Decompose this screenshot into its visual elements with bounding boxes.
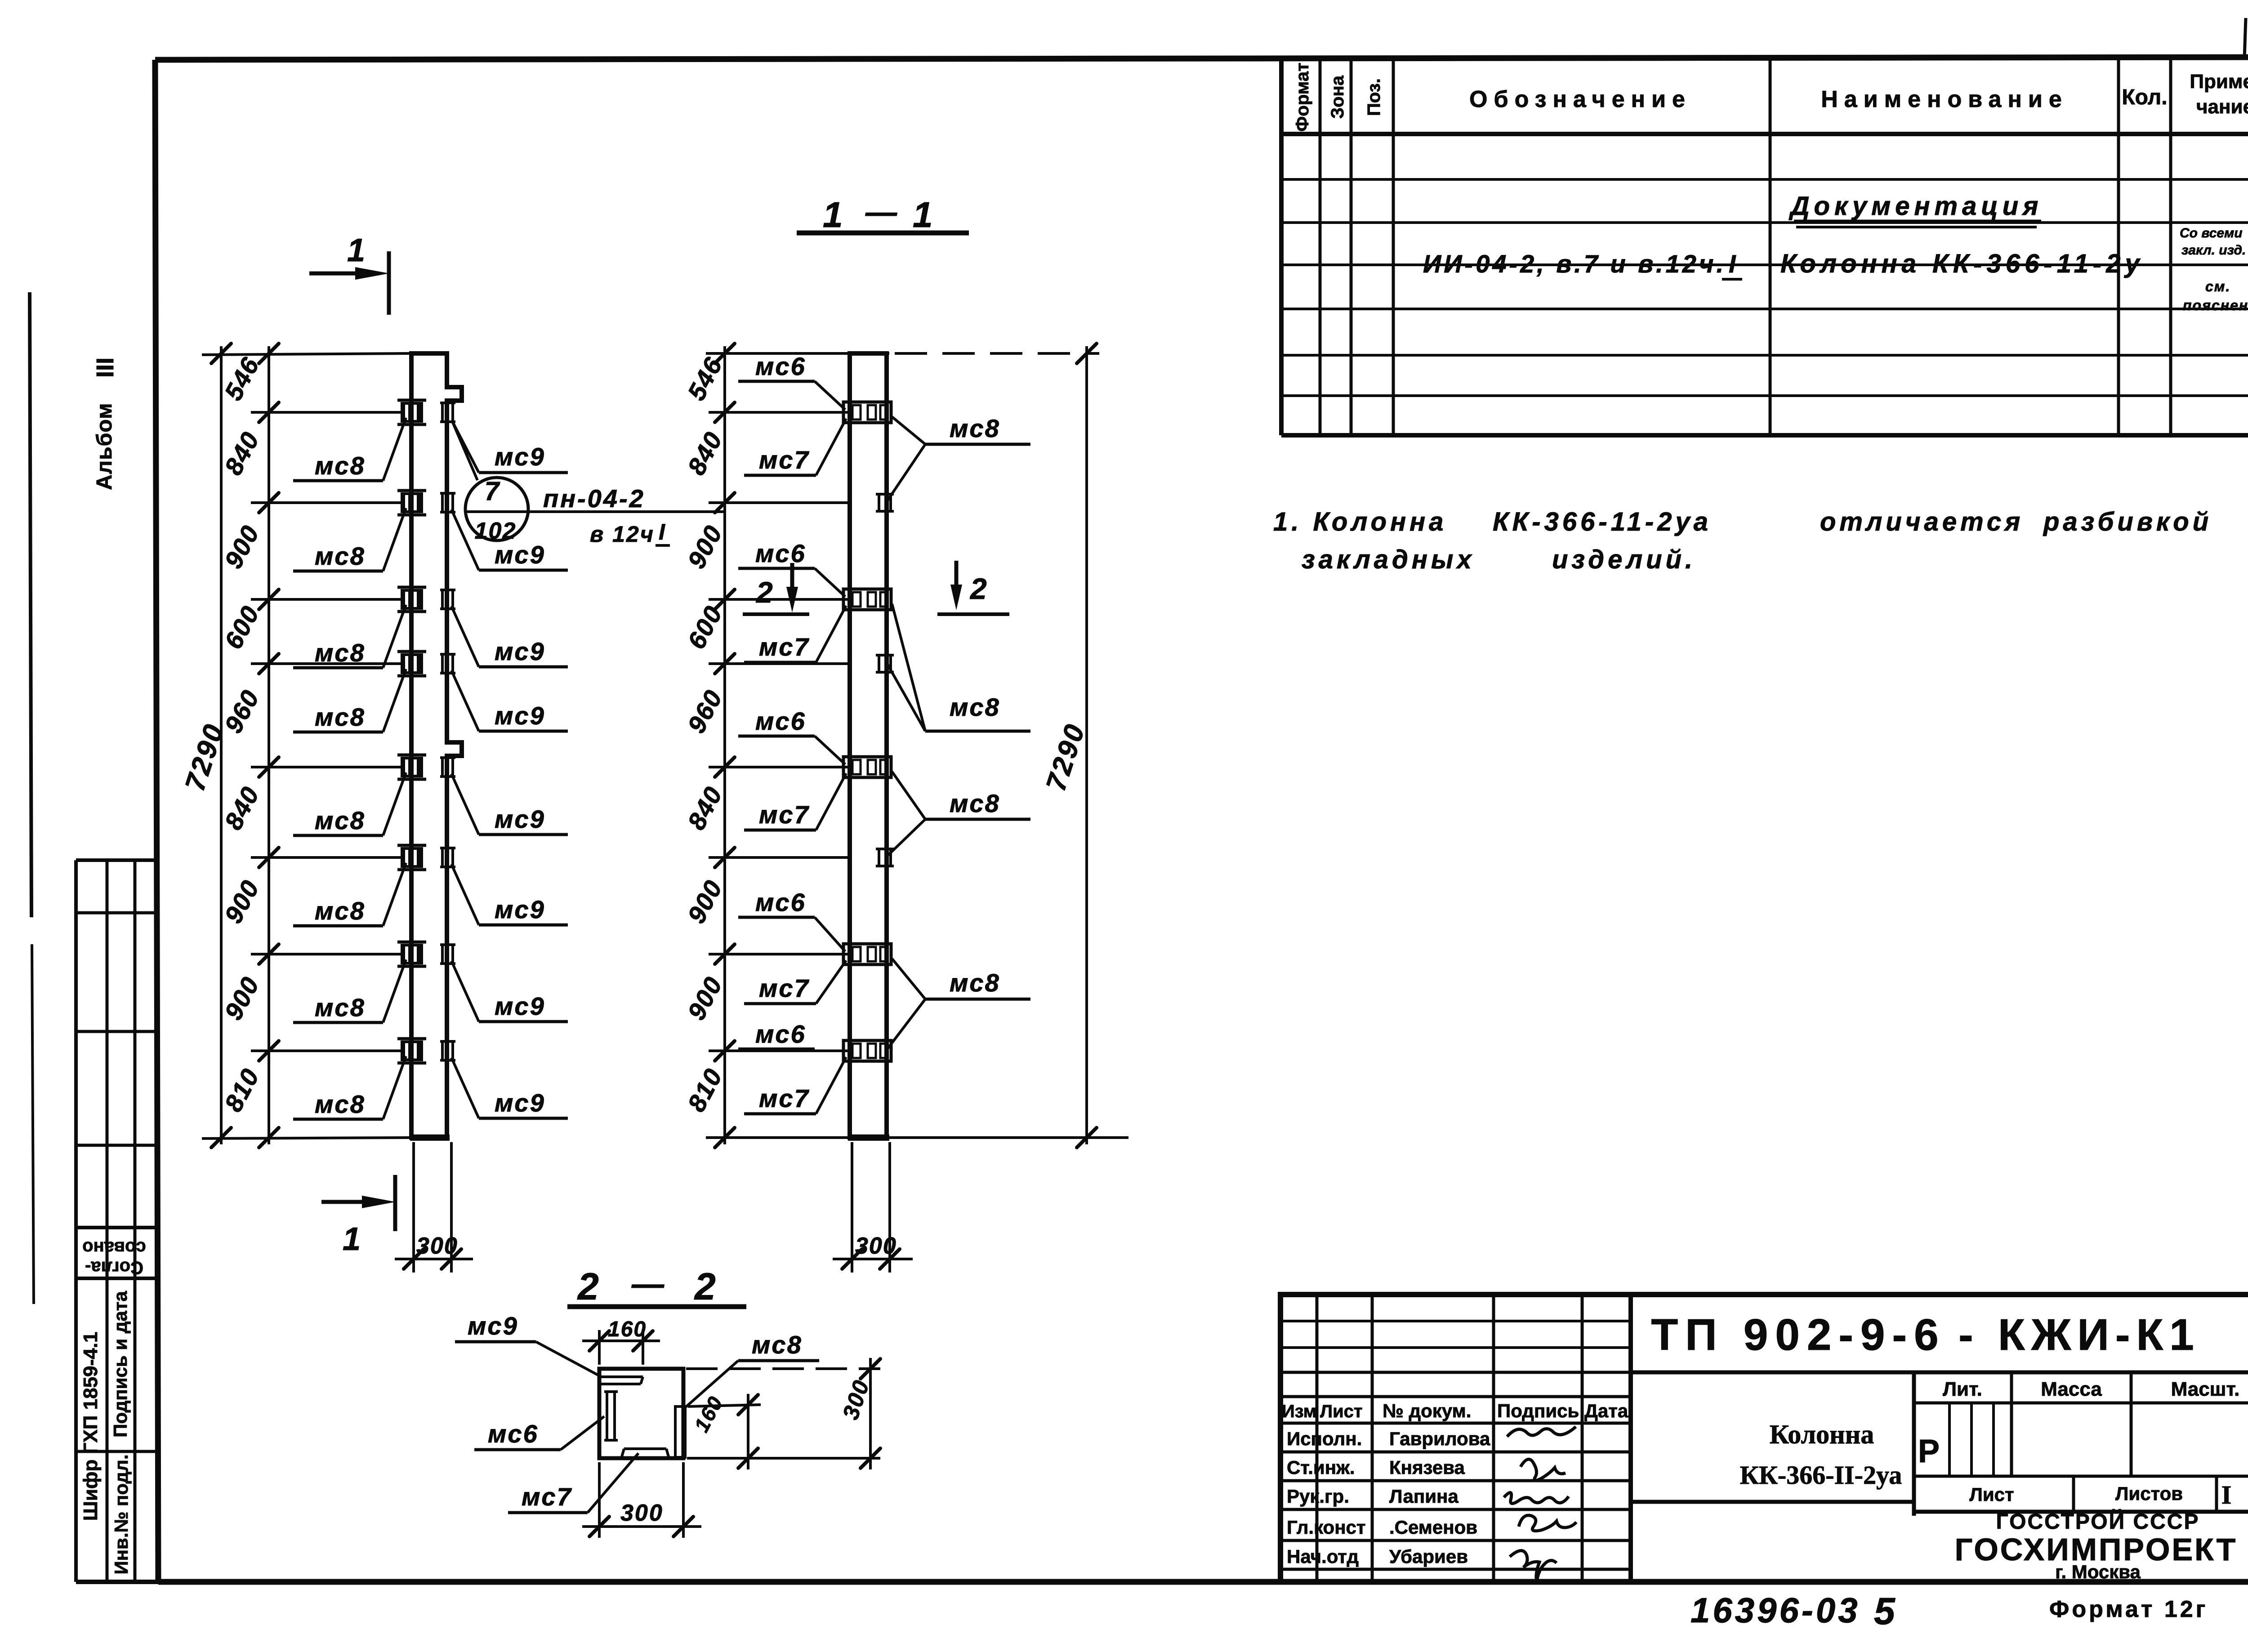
svg-text:Рук.гр.: Рук.гр. xyxy=(1287,1486,1349,1507)
section 2-2: bottom 300 dim xyxy=(598,1462,601,1538)
svg-text:мс6: мс6 xyxy=(755,888,806,916)
svg-text:мс8: мс8 xyxy=(950,414,1000,442)
svg-text:закл. изд.: закл. изд. xyxy=(2181,243,2246,258)
svg-text:—: — xyxy=(631,1266,665,1302)
svg-text:Поз.: Поз. xyxy=(1364,78,1384,116)
svg-text:мс6: мс6 xyxy=(755,1020,806,1048)
svg-text:мс9: мс9 xyxy=(495,540,545,569)
svg-text:пн-04-2: пн-04-2 xyxy=(543,484,645,513)
svg-text:см.: см. xyxy=(2205,278,2230,295)
svg-text:102: 102 xyxy=(475,518,517,544)
section 2-2: plate MC6 (left) xyxy=(607,1392,615,1440)
svg-text:Изм: Изм xyxy=(1282,1402,1316,1421)
svg-text:1: 1 xyxy=(347,232,366,268)
svg-text:160: 160 xyxy=(608,1317,647,1341)
svg-text:Подпись: Подпись xyxy=(1497,1400,1579,1421)
svg-text:чание: чание xyxy=(2196,96,2248,118)
svg-text:ГОССТРОЙ СССР: ГОССТРОЙ СССР xyxy=(1996,1509,2200,1534)
section 2-2: plate MC9 (top slot) xyxy=(599,1375,643,1378)
svg-text:отличается: отличается xyxy=(1820,507,2024,536)
svg-text:I: I xyxy=(2221,1480,2232,1509)
svg-text:Согла-: Согла- xyxy=(85,1258,143,1277)
svg-text:III: III xyxy=(92,357,119,378)
svg-text:Документация: Документация xyxy=(1789,192,2043,221)
section 2-2: top 160 dim xyxy=(598,1330,601,1365)
svg-text:закладных: закладных xyxy=(1302,545,1475,574)
svg-text:КК-366-11-2уа: КК-366-11-2уа xyxy=(1493,507,1712,536)
right view: column outline xyxy=(850,353,887,1138)
svg-text:7: 7 xyxy=(485,477,500,506)
svg-text:Приме-: Приме- xyxy=(2190,71,2248,93)
svg-text:разбивкой: разбивкой xyxy=(2043,507,2212,536)
svg-text:I: I xyxy=(659,519,666,545)
svg-text:Р: Р xyxy=(1918,1433,1940,1469)
svg-text:Гл.конст: Гл.конст xyxy=(1287,1517,1366,1538)
svg-text:1: 1 xyxy=(823,195,844,235)
svg-text:Формат: Формат xyxy=(1293,63,1312,131)
svg-text:I: I xyxy=(1729,250,1737,278)
svg-text:изделий.: изделий. xyxy=(1552,545,1696,574)
svg-text:мс9: мс9 xyxy=(495,701,545,730)
svg-text:Листов: Листов xyxy=(2115,1483,2183,1504)
svg-text:мс8: мс8 xyxy=(315,993,366,1022)
svg-text:мс8: мс8 xyxy=(315,638,366,667)
svg-text:мс7: мс7 xyxy=(759,800,810,829)
svg-text:1. Колонна: 1. Колонна xyxy=(1273,507,1447,536)
svg-text:мс8: мс8 xyxy=(315,806,366,835)
svg-text:мс6: мс6 xyxy=(755,707,806,735)
svg-text:мс6: мс6 xyxy=(488,1420,539,1448)
svg-text:мс7: мс7 xyxy=(759,633,810,661)
svg-text:—: — xyxy=(865,194,898,229)
svg-text:Масса: Масса xyxy=(2041,1378,2102,1400)
svg-text:Лит.: Лит. xyxy=(1943,1378,1982,1400)
svg-text:КК-366-II-2уа: КК-366-II-2уа xyxy=(1740,1460,1902,1490)
svg-text:мс9: мс9 xyxy=(495,637,545,665)
svg-text:Со всеми: Со всеми xyxy=(2180,226,2243,241)
svg-text:в 12ч: в 12ч xyxy=(590,522,655,547)
svg-text:совано: совано xyxy=(82,1238,146,1258)
svg-text:мс9: мс9 xyxy=(495,1089,545,1117)
svg-text:Исполн.: Исполн. xyxy=(1287,1428,1362,1449)
svg-text:мс9: мс9 xyxy=(495,895,545,924)
right view: dimension lines xyxy=(723,346,726,1144)
left view: detail circle 7/102 xyxy=(465,478,528,540)
svg-text:№ докум.: № докум. xyxy=(1383,1400,1471,1421)
svg-text:ИИ-04-2, в.7 и в.12ч.: ИИ-04-2, в.7 и в.12ч. xyxy=(1423,250,1726,278)
svg-text:мс9: мс9 xyxy=(468,1312,518,1340)
svg-text:.Семенов: .Семенов xyxy=(1389,1517,1477,1538)
svg-text:мс8: мс8 xyxy=(950,693,1000,721)
svg-text:5: 5 xyxy=(1874,1590,1896,1632)
svg-text:Кол.: Кол. xyxy=(2122,85,2167,109)
svg-text:Колонна: Колонна xyxy=(1770,1420,1874,1449)
svg-text:мс6: мс6 xyxy=(755,539,806,567)
svg-text:г. Москва: г. Москва xyxy=(2055,1561,2141,1582)
svg-text:Гаврилова: Гаврилова xyxy=(1389,1428,1490,1449)
svg-text:Лапина: Лапина xyxy=(1389,1486,1459,1507)
svg-text:ТП 902-9-6: ТП 902-9-6 xyxy=(1651,1310,1945,1359)
svg-text:мс9: мс9 xyxy=(495,805,545,833)
svg-text:пояснение: пояснение xyxy=(2183,297,2248,313)
svg-text:Шифр ГХП 1859-4.1: Шифр ГХП 1859-4.1 xyxy=(80,1332,102,1521)
left view: embedded plates MC9 (right edge) xyxy=(442,403,453,422)
svg-text:300: 300 xyxy=(620,1500,664,1526)
svg-text:мс9: мс9 xyxy=(495,442,545,471)
svg-text:16396-03: 16396-03 xyxy=(1690,1590,1860,1630)
svg-text:Лист: Лист xyxy=(1320,1402,1363,1421)
section 2-2: square outline xyxy=(599,1369,683,1458)
svg-text:Колонна КК-366-11-2у: Колонна КК-366-11-2у xyxy=(1780,249,2144,278)
svg-text:Обозначение: Обозначение xyxy=(1469,86,1691,112)
svg-text:2: 2 xyxy=(577,1265,600,1308)
svg-text:мс8: мс8 xyxy=(950,789,1000,817)
svg-text:мс6: мс6 xyxy=(755,352,806,380)
left view: column outline xyxy=(411,353,462,1138)
svg-text:мс8: мс8 xyxy=(315,897,366,925)
svg-text:- КЖИ-К1: - КЖИ-К1 xyxy=(1958,1310,2200,1359)
svg-text:1: 1 xyxy=(913,195,934,235)
section 2-2: right 160 dim xyxy=(688,1405,761,1406)
svg-text:мс7: мс7 xyxy=(759,1084,810,1112)
svg-text:Альбом: Альбом xyxy=(93,402,116,490)
left view: embedded plates MC8 (left edge) xyxy=(401,402,423,423)
svg-text:мс7: мс7 xyxy=(522,1482,572,1511)
svg-text:мс8: мс8 xyxy=(315,542,366,570)
svg-text:Инв.№ подл.: Инв.№ подл. xyxy=(111,1454,132,1574)
section 2-2: plate MC8 (right) xyxy=(675,1406,685,1457)
title block xyxy=(1280,1295,2248,1582)
svg-text:Лист: Лист xyxy=(1969,1484,2014,1505)
svg-text:Зона: Зона xyxy=(1328,75,1347,119)
svg-text:мс7: мс7 xyxy=(759,974,810,1002)
svg-text:мс8: мс8 xyxy=(950,969,1000,997)
svg-text:Дата: Дата xyxy=(1584,1400,1628,1421)
parts list table xyxy=(1279,60,1284,435)
svg-text:300: 300 xyxy=(416,1233,458,1259)
svg-text:Убариев: Убариев xyxy=(1389,1546,1468,1567)
svg-text:1: 1 xyxy=(343,1221,361,1257)
svg-text:мс8: мс8 xyxy=(315,703,366,731)
svg-text:2: 2 xyxy=(755,576,774,609)
right view: bottom 300 dim xyxy=(851,1142,853,1272)
svg-text:мс9: мс9 xyxy=(495,992,545,1020)
section 2-2: plate MC7 (bottom) xyxy=(624,1447,666,1450)
right view: single plates xyxy=(879,494,891,511)
left view: section marks 1 xyxy=(309,272,360,276)
svg-text:мс8: мс8 xyxy=(315,1090,366,1118)
left stamp table xyxy=(74,860,78,1582)
left view: dimension lines xyxy=(220,346,223,1144)
svg-text:Нач.отд: Нач.отд xyxy=(1287,1546,1359,1567)
drawing frame xyxy=(155,57,2248,60)
svg-text:Масшт.: Масшт. xyxy=(2171,1378,2240,1400)
svg-text:Князева: Князева xyxy=(1389,1457,1465,1478)
page number xyxy=(2244,18,2246,58)
svg-text:мс7: мс7 xyxy=(759,446,810,474)
svg-text:300: 300 xyxy=(855,1233,897,1259)
svg-text:Формат 12г: Формат 12г xyxy=(2049,1596,2208,1622)
svg-text:мс8: мс8 xyxy=(315,451,366,480)
svg-text:Ст.инж.: Ст.инж. xyxy=(1287,1457,1355,1478)
svg-text:Подпись и дата: Подпись и дата xyxy=(110,1291,131,1438)
section 2-2: right 300 dim xyxy=(686,1367,880,1370)
svg-text:2: 2 xyxy=(694,1265,717,1308)
svg-text:мс8: мс8 xyxy=(752,1331,803,1359)
svg-text:Наименование: Наименование xyxy=(1821,86,2068,112)
svg-text:2: 2 xyxy=(969,572,988,605)
left view: bottom 300 dim xyxy=(412,1142,415,1272)
right view: plate groups xyxy=(843,402,891,423)
